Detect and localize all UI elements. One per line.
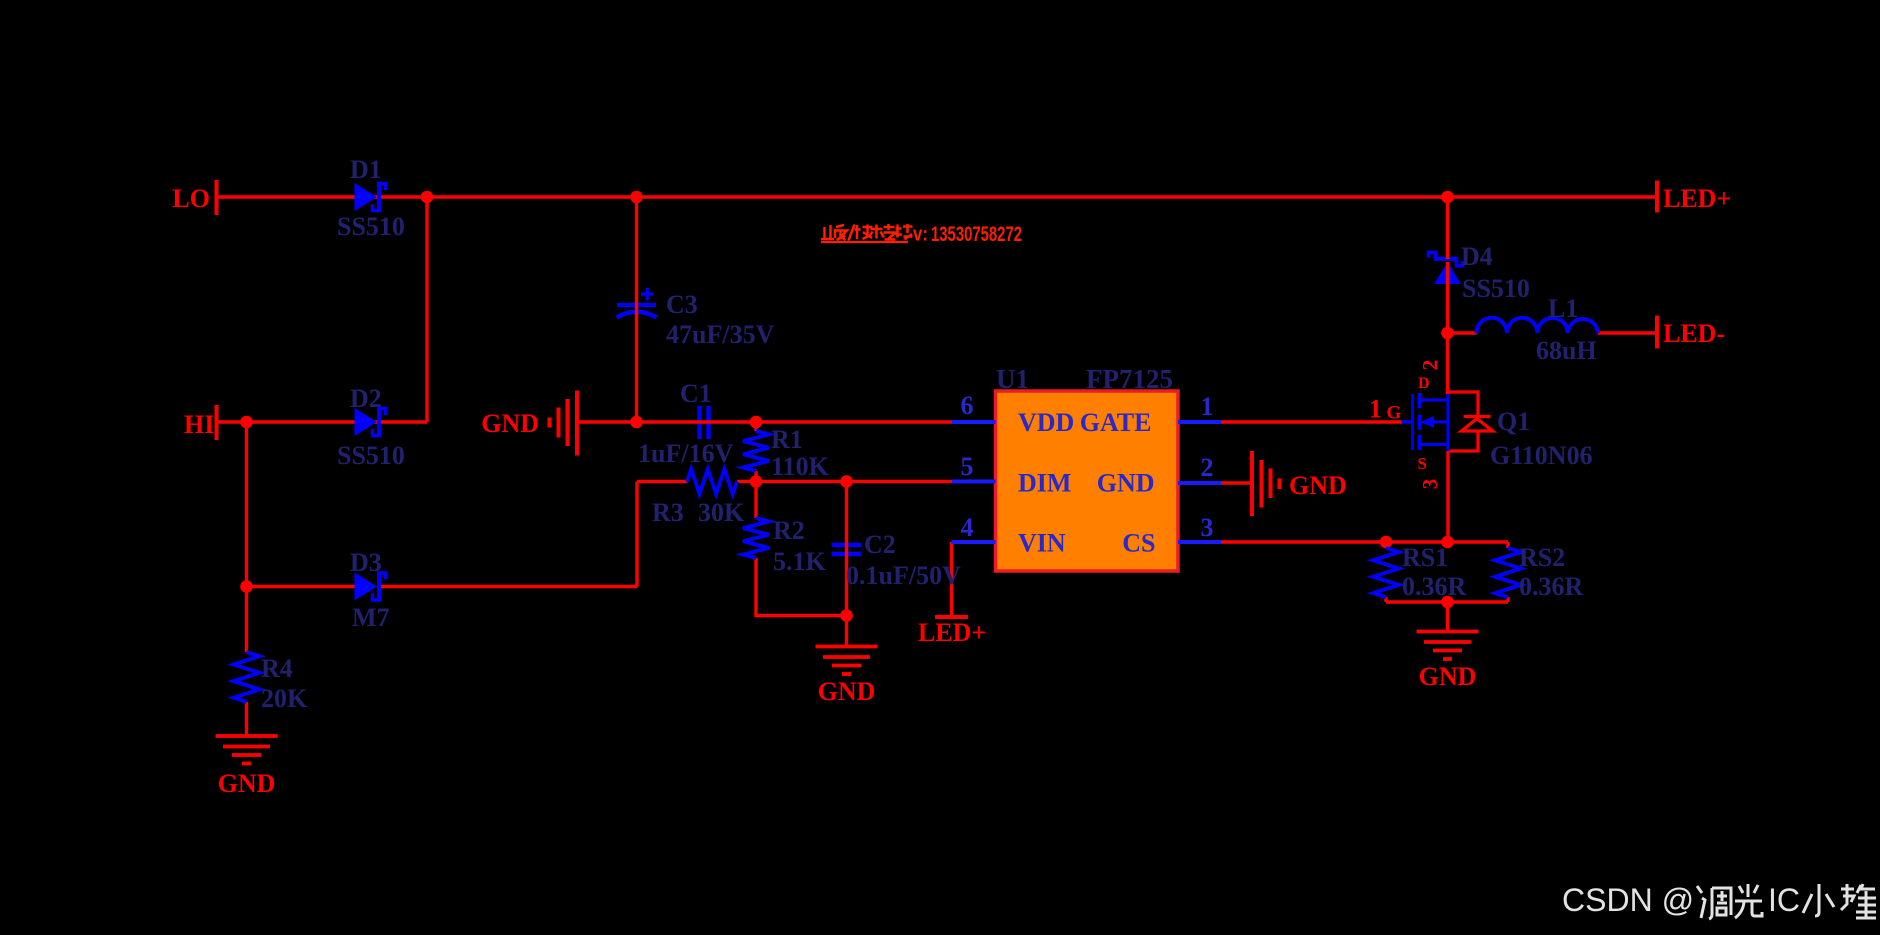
wire R2 bottom to GND row — [756, 558, 847, 616]
junction C2 top / DIM row — [840, 475, 853, 488]
svg-text:CS: CS — [1122, 529, 1155, 558]
junction R1 top / VDD row — [750, 416, 763, 429]
junction Q1 source / CS row — [1441, 536, 1454, 549]
svg-text:M7: M7 — [352, 603, 390, 632]
svg-text:R3: R3 — [652, 498, 684, 527]
svg-text:VDD: VDD — [1018, 408, 1074, 437]
body diode Q1 red loop — [1448, 392, 1491, 451]
junction HI node — [240, 416, 253, 429]
terminal LED+ (pin4) — [935, 615, 968, 619]
terminal LED- — [1655, 316, 1659, 349]
junction C3 / GND row — [630, 416, 643, 429]
wire GND to pin6 row — [577, 420, 952, 423]
svg-text:G: G — [1387, 403, 1402, 424]
resistor RS1 0.36R — [1373, 548, 1399, 597]
svg-text:CSDN @: CSDN @ — [1562, 882, 1694, 918]
svg-text:R2: R2 — [773, 516, 805, 545]
svg-text:GATE: GATE — [1080, 408, 1152, 437]
svg-text:D1: D1 — [350, 155, 382, 184]
wire Q1 source down to CS row — [1446, 451, 1449, 542]
svg-text:SS510: SS510 — [337, 212, 405, 241]
junction D4 anode / L1 — [1441, 327, 1454, 340]
diode D1 SS510 — [355, 183, 386, 211]
svg-text:VIN: VIN — [1018, 529, 1066, 558]
svg-text:4: 4 — [961, 513, 974, 542]
wire vertical D1/D2 cathodes — [425, 197, 428, 422]
junction R1 bottom / DIM row — [750, 475, 763, 488]
svg-text:RS1: RS1 — [1402, 543, 1448, 572]
svg-text:LO: LO — [172, 184, 210, 213]
op-amp U1 FP7125 IC body — [996, 391, 1179, 571]
ground sideways left (C1 row) — [550, 391, 578, 456]
capacitor C3 — [617, 288, 657, 318]
diode D4 SS510 — [1429, 253, 1463, 285]
wire CS row pin3 — [1221, 540, 1508, 543]
resistor R3 30K — [687, 469, 737, 494]
svg-text:110K: 110K — [771, 452, 830, 481]
junction C3 / top rail — [630, 191, 643, 204]
svg-text:2: 2 — [1201, 453, 1214, 482]
IC pin numbers — [961, 391, 1214, 542]
svg-text:v:: v: — [913, 224, 928, 246]
svg-text:LED+: LED+ — [1663, 184, 1731, 213]
svg-text:D2: D2 — [350, 384, 382, 413]
IC pin names — [1018, 408, 1156, 558]
svg-text:LED-: LED- — [1663, 319, 1725, 348]
svg-text:IC: IC — [1768, 882, 1800, 918]
navy component labels — [261, 155, 1597, 713]
ground sideways right (pin2) — [1252, 451, 1280, 516]
svg-text:D3: D3 — [350, 548, 382, 577]
stylized 小 — [1803, 884, 1834, 916]
svg-text:C3: C3 — [666, 290, 698, 319]
wire C3 branch vertical — [635, 197, 638, 422]
support contact slogan (stylized CJK strokes) — [821, 224, 913, 241]
wire top rail LO to LED+ — [218, 195, 1657, 198]
svg-text:S: S — [1418, 454, 1427, 473]
pin 2 stub — [1178, 481, 1221, 485]
junction D3 anode — [240, 580, 253, 593]
ground RS — [1417, 632, 1479, 660]
svg-text:U1: U1 — [996, 364, 1029, 394]
junction C2 bottom / R2 bottom — [840, 609, 853, 622]
wire RS center to ground — [1446, 602, 1449, 632]
capacitor C1 — [700, 406, 709, 439]
svg-text:Q1: Q1 — [1497, 407, 1530, 436]
wire pin4 to LED+ terminal — [950, 542, 953, 617]
svg-text:3: 3 — [1201, 513, 1214, 542]
ground C2 — [816, 647, 878, 675]
wire L1 right lead to LED- — [1598, 331, 1657, 334]
svg-text:GND: GND — [1097, 469, 1155, 498]
svg-text:SS510: SS510 — [1462, 274, 1530, 303]
svg-text:1uF/16V: 1uF/16V — [638, 439, 734, 468]
svg-text:6: 6 — [961, 391, 974, 420]
resistor R4 20K — [234, 652, 260, 702]
junction D1 cathode / top rail — [421, 191, 434, 204]
wire L1 left lead — [1448, 331, 1477, 334]
svg-text:HI: HI — [184, 410, 214, 439]
svg-text:1: 1 — [1201, 392, 1214, 421]
svg-text:20K: 20K — [261, 684, 308, 713]
svg-text:5.1K: 5.1K — [773, 547, 827, 576]
svg-text:D4: D4 — [1461, 242, 1493, 271]
stylized 调 — [1697, 886, 1731, 919]
svg-text:LED+: LED+ — [918, 618, 986, 647]
transistor Q1 G110N06 (N-MOSFET) — [1402, 393, 1449, 451]
wire RS bottom row — [1386, 600, 1508, 603]
wire pin2 to GND — [1221, 481, 1252, 484]
wire gate pin1 — [1221, 420, 1402, 423]
svg-text:C2: C2 — [864, 530, 896, 559]
wire C2 column — [845, 482, 848, 616]
wire R1 leads — [754, 422, 757, 518]
svg-text:68uH: 68uH — [1536, 336, 1597, 365]
wire HI row — [218, 420, 427, 423]
svg-text:GND: GND — [1289, 471, 1347, 500]
svg-text:30K: 30K — [698, 498, 745, 527]
svg-text:GND: GND — [481, 409, 539, 438]
wire R4 leads — [245, 587, 248, 737]
svg-text:FP7125: FP7125 — [1086, 364, 1173, 394]
junction RS1 top / CS row — [1380, 536, 1393, 549]
pin 6 stub — [952, 420, 996, 424]
junction RS bottom / GND — [1441, 596, 1454, 609]
resistor RS2 0.36R — [1495, 548, 1521, 597]
junction D4 / top rail — [1441, 191, 1454, 204]
pin 5 stub — [952, 480, 996, 484]
svg-text:R1: R1 — [771, 425, 803, 454]
terminal HI — [215, 405, 219, 440]
inductor L1 68uH — [1477, 318, 1599, 333]
pin 1 stub — [1178, 420, 1221, 424]
pin 3 stub — [1178, 540, 1221, 544]
red net labels — [172, 184, 1731, 798]
svg-text:G110N06: G110N06 — [1490, 441, 1593, 470]
svg-text:3: 3 — [1418, 479, 1442, 490]
svg-text:GND: GND — [1419, 662, 1477, 691]
wire right rail D4/L1/Q1 drain — [1446, 197, 1449, 394]
pin 4 stub — [952, 540, 996, 544]
svg-text:0.1uF/50V: 0.1uF/50V — [846, 561, 961, 590]
svg-text:D: D — [1418, 375, 1430, 392]
CSDN watermark — [1562, 882, 1876, 919]
svg-text:5: 5 — [961, 452, 974, 481]
diode D3 M7 — [355, 573, 386, 601]
terminal LED+ — [1655, 181, 1659, 213]
resistor R1 110K — [743, 431, 769, 471]
ground R4 — [216, 736, 278, 764]
svg-text:0.36R: 0.36R — [1402, 572, 1467, 601]
capacitor C2 — [832, 545, 862, 554]
svg-text:SS510: SS510 — [337, 441, 405, 470]
svg-text:L1: L1 — [1548, 294, 1578, 323]
stylized 雅 — [1841, 884, 1876, 918]
wire HI junction down to D3 — [245, 422, 248, 587]
svg-text:2: 2 — [1418, 360, 1442, 371]
wire RS2 leads — [1506, 542, 1509, 602]
transistor Q1 pin labels — [1369, 360, 1442, 490]
wire R3 corner down to D3 row — [635, 482, 638, 587]
terminal LO — [215, 180, 219, 215]
svg-text:C1: C1 — [680, 379, 712, 408]
svg-text:0.36R: 0.36R — [1519, 572, 1584, 601]
wire D3 row — [247, 585, 638, 588]
resistor R2 5.1K — [743, 518, 769, 558]
wire C2 to ground — [845, 616, 848, 648]
svg-text:RS2: RS2 — [1519, 543, 1565, 572]
svg-text:13530758272: 13530758272 — [931, 222, 1022, 246]
svg-text:47uF/35V: 47uF/35V — [666, 320, 775, 349]
svg-text:1: 1 — [1369, 395, 1382, 424]
wire RS1 leads — [1384, 542, 1387, 602]
svg-text:GND: GND — [818, 677, 876, 706]
wire R3 row to pin5 — [637, 480, 952, 483]
slogan underline — [821, 241, 908, 243]
svg-text:DIM: DIM — [1018, 469, 1071, 498]
svg-text:R4: R4 — [261, 654, 293, 683]
diode D2 SS510 — [355, 408, 386, 436]
stylized 光 — [1735, 884, 1762, 918]
svg-text:GND: GND — [218, 769, 276, 798]
